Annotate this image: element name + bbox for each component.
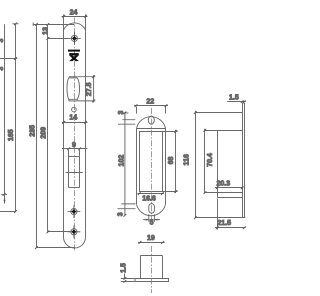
bottom slot capsule <box>149 204 155 214</box>
centerline left view <box>74 18 76 253</box>
lens shaped latch cutout <box>67 77 80 101</box>
centerline middle view <box>151 108 153 225</box>
dimension line 165 <box>0 22 19 213</box>
svg-text:27.5: 27.5 <box>86 82 93 96</box>
extension lines for 21.5 <box>217 199 219 230</box>
svg-text:1.5: 1.5 <box>229 95 239 102</box>
svg-text:68: 68 <box>168 157 175 165</box>
svg-text:3: 3 <box>0 67 5 71</box>
follower rectangle cutout <box>69 150 80 188</box>
top screw hole <box>68 32 81 45</box>
dimension 1.5 flange <box>121 274 135 283</box>
magnet block flange <box>135 279 169 282</box>
top extension line plate apex <box>33 23 74 27</box>
extension line top screw center <box>48 38 69 40</box>
dimension 27.5 <box>78 75 96 103</box>
svg-text:165: 165 <box>8 129 15 141</box>
dimension line 235 <box>35 23 75 249</box>
svg-text:22: 22 <box>146 99 154 106</box>
svg-text:3: 3 <box>0 39 5 43</box>
magnet block body <box>141 256 163 279</box>
strike plate dome top <box>137 117 166 129</box>
svg-text:21.5: 21.5 <box>217 220 231 227</box>
svg-text:5: 5 <box>150 220 154 227</box>
dimension line 209 <box>47 24 71 233</box>
centerline bottom block <box>151 246 153 293</box>
faceplate outline left view <box>64 15 86 249</box>
dimension 24 top <box>62 15 88 18</box>
dimension 3 lower <box>118 204 136 209</box>
dimension line 70.4 <box>204 129 243 194</box>
dimension 1.5 strip <box>227 100 246 103</box>
faceplate strip side view <box>243 103 245 218</box>
svg-text:13: 13 <box>42 27 49 35</box>
dimension 68 <box>163 130 178 193</box>
dimension 16.6 <box>138 192 165 195</box>
svg-text:235: 235 <box>30 125 37 137</box>
svg-text:14: 14 <box>69 115 77 122</box>
dimension 3 upper <box>118 115 135 124</box>
bottom screw hole <box>68 225 81 238</box>
oval hole in dome <box>148 116 154 124</box>
extension line mid left <box>0 57 17 60</box>
strike box bottom arc <box>137 204 166 215</box>
svg-text:24: 24 <box>70 9 78 16</box>
dimension line 13 <box>47 23 50 40</box>
strike box outer sides <box>137 129 166 205</box>
svg-text:19: 19 <box>147 235 155 242</box>
svg-text:9: 9 <box>72 142 76 149</box>
svg-text:116: 116 <box>184 154 191 165</box>
extension line case top <box>205 129 243 133</box>
inner rectangle cutout <box>140 132 163 192</box>
svg-text:70.4: 70.4 <box>207 153 214 167</box>
extension line strip top <box>196 111 243 115</box>
leftmost clipped dimension line <box>1 24 7 203</box>
small hole below lens <box>72 107 77 112</box>
dimension line 116 <box>194 111 245 219</box>
svg-text:1.5: 1.5 <box>121 263 128 273</box>
middle screw hole <box>68 205 81 218</box>
svg-text:16.6: 16.6 <box>142 195 156 202</box>
lock case box side view <box>218 131 243 198</box>
AGB logo <box>68 50 80 62</box>
svg-text:3: 3 <box>117 212 124 216</box>
plate joint line <box>66 172 83 174</box>
dimension line 102 <box>122 112 128 217</box>
dimension 5 <box>143 214 160 222</box>
svg-text:102: 102 <box>119 155 126 167</box>
svg-text:209: 209 <box>40 127 47 139</box>
